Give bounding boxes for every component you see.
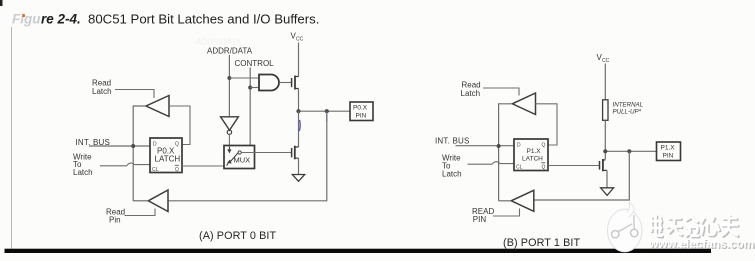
- wire resistor to pin node (B): [604, 120, 606, 159]
- svg-text:CL: CL: [516, 165, 523, 171]
- wire INT.BUS (A): [89, 145, 150, 147]
- watermark logo elecfans: [608, 203, 642, 252]
- svg-text:Q: Q: [175, 167, 179, 173]
- svg-text:CONTROL: CONTROL: [235, 59, 275, 68]
- node junction pin/readpin (B): [627, 149, 631, 153]
- svg-text:D: D: [517, 143, 521, 149]
- wire buffer A1 output to INT.BUS: [133, 106, 146, 201]
- svg-text:INT. BUS: INT. BUS: [435, 137, 470, 146]
- wire Q1 source to pin node: [298, 89, 300, 112]
- resistor R1 internal pull-up: [603, 100, 608, 121]
- wire AND gate top input: [229, 77, 259, 79]
- latch U5 P1.X: [514, 139, 548, 171]
- watermark text www.elecfans.com: [648, 237, 755, 252]
- wire Write-To-Latch with hop (B): [468, 162, 515, 165]
- svg-text:80C51 Port Bit Latches and I/O: 80C51 Port Bit Latches and I/O Buffers.: [88, 12, 319, 27]
- svg-text:PULL-UP*: PULL-UP*: [613, 108, 642, 115]
- svg-text:CC: CC: [296, 37, 304, 43]
- svg-text:Q: Q: [175, 142, 179, 148]
- wire read-pin feedback vertical (B): [535, 151, 630, 200]
- wire buffer A2 output: [133, 200, 148, 202]
- transistor Q3 pull-down (B): [600, 159, 608, 171]
- wire VCC to pull-up resistor: [604, 64, 606, 101]
- label Read Pin (A): [106, 208, 125, 225]
- svg-text:www.elecfans.com: www.elecfans.com: [648, 237, 754, 251]
- svg-text:ADDR/DATA: ADDR/DATA: [207, 47, 253, 56]
- label VCC (B): [597, 53, 610, 64]
- MUX U4: [224, 146, 255, 169]
- svg-text:(B) PORT 1 BIT: (B) PORT 1 BIT: [503, 237, 580, 249]
- node junction pin/Q3 (B): [603, 149, 607, 153]
- node junction pin/Q1 (A): [296, 109, 300, 113]
- svg-text:Latch: Latch: [92, 87, 112, 96]
- node junction INT.BUS/buffers (B): [497, 144, 501, 148]
- leader wire Read Pin (A): [125, 209, 156, 216]
- wire pin node down to Q2 drain: [298, 111, 300, 147]
- wire latch B Qbar to Q3 gate: [548, 165, 599, 167]
- svg-text:PIN: PIN: [473, 215, 487, 224]
- svg-text:Figu: Figu: [12, 12, 41, 27]
- transistor Q2 pull-down (A): [292, 146, 299, 160]
- label INTERNAL PULL-UP: [613, 101, 644, 115]
- svg-text:Pin: Pin: [109, 216, 121, 225]
- svg-text:PIN: PIN: [663, 153, 674, 160]
- transistor Q1 pull-up (A): [292, 76, 299, 90]
- wire Write-To-Latch with hop over vertical (A): [100, 163, 150, 166]
- buffer read-latch (B): [512, 93, 535, 115]
- label Read Latch (A): [92, 79, 112, 97]
- artifact blue mark on drain wire: [298, 120, 301, 131]
- wire latch A Qbar to MUX: [182, 165, 224, 167]
- svg-text:INTERNAL: INTERNAL: [613, 101, 644, 108]
- svg-text:P1.X: P1.X: [527, 148, 542, 155]
- wire MUX output to Q2 gate: [241, 152, 291, 154]
- wire AND output to Q1 gate: [279, 82, 291, 84]
- inverter U3 (A): [221, 117, 239, 135]
- wire read-pin feedback vertical (A): [169, 111, 327, 201]
- svg-text:CC: CC: [602, 58, 610, 64]
- watermark text CJK dianzifashaoyou: [649, 214, 740, 237]
- leader wire Read Latch (A): [115, 90, 154, 99]
- corner mark top-left: [0, 0, 3, 6]
- wire buffer A1 input from latch Q: [169, 106, 190, 145]
- svg-text:Latch: Latch: [73, 168, 93, 177]
- svg-text:Q: Q: [542, 143, 546, 149]
- AND gate U2: [259, 75, 279, 91]
- buffer read-latch (A): [146, 96, 169, 117]
- wire Q3 source to ground: [606, 170, 608, 187]
- svg-text:re 2-4.: re 2-4.: [41, 12, 81, 27]
- label VCC (A): [291, 32, 304, 43]
- svg-text:LATCH: LATCH: [522, 156, 543, 163]
- wire VCC to Q1 drain: [298, 43, 300, 77]
- pin box P0.X PIN: [350, 102, 373, 121]
- wire buffer B1 input from latch Q: [536, 104, 558, 145]
- svg-text:CL: CL: [152, 167, 159, 173]
- wire pin node horizontal (B): [605, 150, 656, 152]
- wire ADDR/DATA vertical to inverter: [228, 55, 230, 117]
- latch U1 P0.X: [150, 138, 182, 173]
- label READ PIN (B): [472, 207, 494, 224]
- artifact blue dot: [326, 114, 328, 122]
- svg-text:P1.X: P1.X: [661, 145, 676, 152]
- bottom rule line: [5, 249, 712, 253]
- node junction CONTROL to AND: [248, 86, 252, 90]
- wire buffer B2 output: [499, 200, 512, 202]
- svg-text:MUX: MUX: [234, 156, 251, 165]
- buffer read-pin (A): [148, 190, 168, 212]
- left page border line: [11, 27, 13, 249]
- leader wire READ PIN (B): [493, 209, 520, 217]
- wire inverter output to MUX: [228, 134, 230, 146]
- node junction ADDR/DATA to AND (A): [227, 76, 231, 80]
- title Figure 2-4: [12, 12, 319, 27]
- svg-text:(A) PORT 0 BIT: (A) PORT 0 BIT: [199, 230, 276, 242]
- label Write To Latch (B): [442, 154, 462, 179]
- svg-text:LATCH: LATCH: [155, 155, 181, 164]
- node junction INT.BUS/buffers (A): [131, 144, 135, 148]
- wire AND gate bottom input: [250, 87, 259, 89]
- buffer read-pin (B): [511, 190, 534, 211]
- node junction pin/readpin (A): [325, 109, 329, 113]
- leader wire Read Latch (B): [483, 88, 519, 96]
- svg-text:ADDR/DATA: ADDR/DATA: [196, 38, 242, 47]
- wire pin node horizontal (A): [299, 110, 351, 112]
- wire CONTROL vertical to MUX: [249, 68, 251, 146]
- ground (A): [292, 175, 304, 182]
- svg-text:Q: Q: [542, 165, 546, 171]
- wire INT.BUS (B): [456, 145, 515, 147]
- svg-text:Latch: Latch: [461, 89, 481, 98]
- label Write To Latch (A): [73, 153, 93, 178]
- label Read Latch (B): [461, 81, 481, 99]
- svg-text:P0.X: P0.X: [353, 105, 368, 112]
- svg-text:Latch: Latch: [442, 170, 462, 179]
- svg-text:PIN: PIN: [356, 113, 367, 120]
- ground (B): [601, 188, 614, 196]
- pin box P1.X PIN: [657, 142, 681, 161]
- wire buffer B1 output to INT.BUS: [499, 104, 513, 201]
- wire Q2 source to ground: [298, 158, 300, 174]
